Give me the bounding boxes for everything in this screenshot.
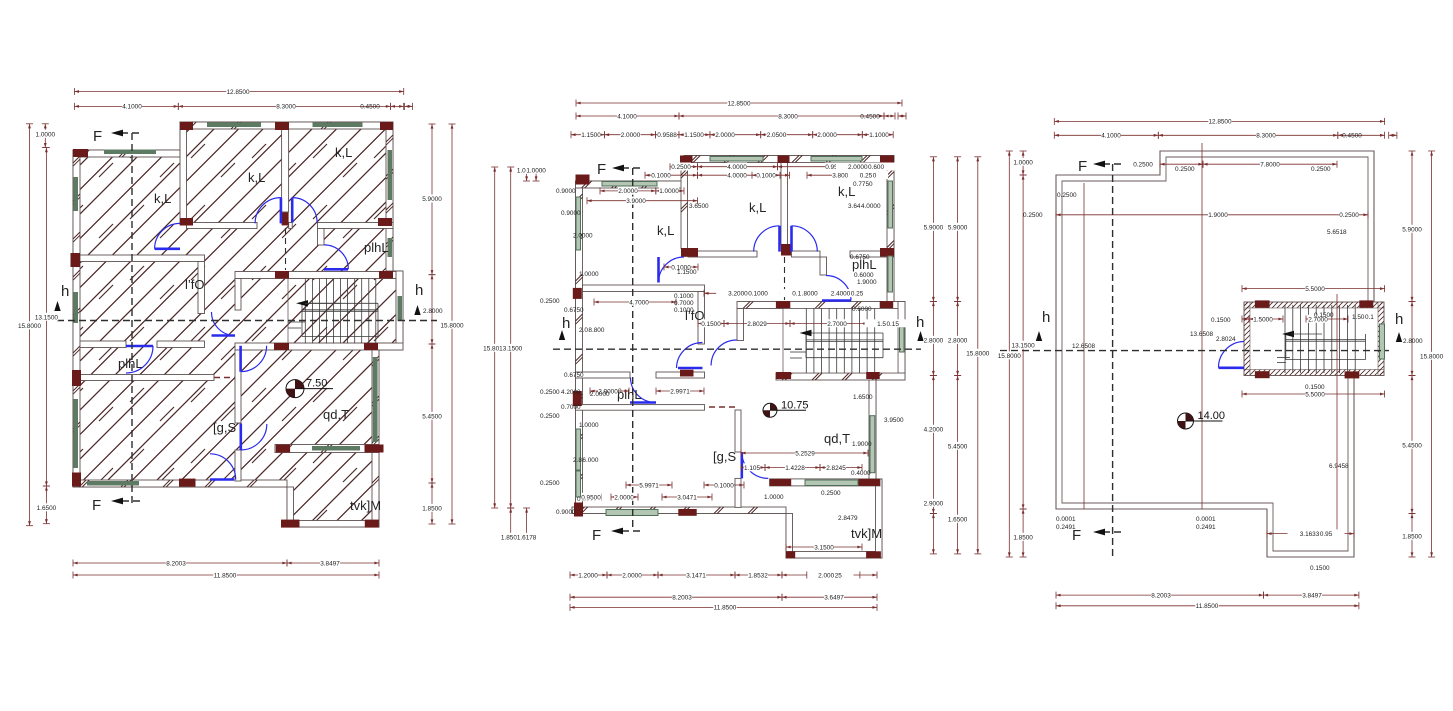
- plan2 windows: [576, 157, 904, 516]
- plan2 terrace step wall: [786, 514, 793, 559]
- svg-text:0.1000: 0.1000: [714, 482, 734, 489]
- svg-text:2.9000: 2.9000: [924, 500, 944, 507]
- svg-text:0.9000: 0.9000: [561, 210, 581, 217]
- plan2 bottom wall: [572, 507, 786, 514]
- plan1 wall B (k,L mid divider): [282, 129, 289, 212]
- plan2 stair dims: [698, 319, 724, 328]
- svg-text:0.7000: 0.7000: [561, 404, 581, 411]
- plan3 stair columns: [1255, 300, 1373, 378]
- svg-text:5.9000: 5.9000: [1402, 226, 1422, 233]
- svg-text:1.1500: 1.1500: [684, 132, 704, 139]
- svg-text:1.8500: 1.8500: [1402, 533, 1422, 540]
- plan1 bottom dimensions: [73, 559, 287, 568]
- plan2 bottom dim row C: [570, 603, 877, 612]
- plan3 long dim 1.9000: [1056, 211, 1368, 220]
- plan1 door D1: [155, 223, 180, 248]
- plan3 top dims: [1054, 117, 1384, 126]
- svg-text:3.8497: 3.8497: [320, 560, 340, 567]
- plan2 level marker 10.75: [763, 399, 809, 417]
- plan2 door D4-2: [677, 343, 703, 369]
- plan2 terrace right wall: [876, 479, 883, 558]
- plan2 stair top wall: [737, 302, 905, 309]
- svg-text:F: F: [597, 161, 606, 178]
- plan2 right dims: [923, 157, 943, 302]
- svg-text:2.7000: 2.7000: [827, 321, 847, 328]
- plan2 wall A2: [681, 163, 688, 249]
- svg-text:3.2000 0.1000: 3.2000 0.1000: [728, 291, 768, 298]
- plan1 wall I (plhL lower top): [80, 341, 126, 348]
- svg-text:2.8479: 2.8479: [838, 515, 858, 522]
- plan2 door vestibule: [711, 340, 737, 366]
- svg-text:1.8532: 1.8532: [748, 572, 768, 579]
- svg-text:5.5000: 5.5000: [1305, 286, 1325, 293]
- svg-text:2.8 6.000: 2.8 6.000: [573, 457, 599, 464]
- svg-text:15.8000: 15.8000: [1420, 353, 1444, 360]
- plan2 wall left: [576, 188, 583, 514]
- svg-text:0.9500: 0.9500: [581, 494, 601, 501]
- plan1 wall E (l'fO top): [80, 255, 205, 262]
- svg-text:2.4000 0.25: 2.4000 0.25: [831, 291, 864, 298]
- plan1 wall top-left: [73, 150, 180, 157]
- svg-text:3.64 4.0000: 3.64 4.0000: [848, 203, 881, 210]
- plan1 left dimension 1.6500: [36, 486, 56, 524]
- plan2 staircase: [783, 309, 898, 374]
- plan1 double door D2 right: [292, 198, 317, 223]
- svg-text:3.1500: 3.1500: [814, 544, 834, 551]
- plan1 wall A (k,L left divider): [180, 129, 187, 225]
- plan2 section line h: [553, 314, 924, 349]
- plan1 wall K ([g,S right): [235, 350, 241, 423]
- svg-text:[g,S: [g,S: [713, 449, 736, 464]
- svg-text:1.2000: 1.2000: [578, 572, 598, 579]
- plan2 door D7-2: [742, 452, 769, 478]
- svg-text:0.2491: 0.2491: [1056, 524, 1076, 531]
- svg-text:F: F: [1078, 158, 1087, 175]
- plan2 double door right: [792, 226, 818, 252]
- svg-text:0.2500: 0.2500: [540, 413, 560, 420]
- plan1 left dimension 13.1500: [35, 148, 59, 486]
- svg-text:0.25 0: 0.25 0: [860, 173, 877, 180]
- svg-text:h: h: [1395, 311, 1403, 328]
- plan1 columns: [71, 122, 394, 528]
- plan1 top dimension 12.8500: [74, 87, 403, 96]
- svg-text:8.3000: 8.3000: [778, 113, 798, 120]
- plan1 door D6 (stair to qd,T): [241, 346, 267, 372]
- svg-text:1.6500: 1.6500: [37, 505, 57, 512]
- plan1 terrace bottom wall: [287, 521, 379, 528]
- svg-text:0.7750: 0.7750: [853, 181, 873, 188]
- svg-text:0.2500: 0.2500: [540, 480, 560, 487]
- plan 3 roof outline inner: [1062, 157, 1368, 551]
- plan3 stair window: [1380, 324, 1385, 359]
- svg-text:2.8029: 2.8029: [747, 321, 767, 328]
- svg-text:2.8000: 2.8000: [948, 337, 968, 344]
- plan3 bottom dims: [1056, 591, 1264, 600]
- plan3 section line h: [1000, 309, 1403, 351]
- svg-text:[g,S: [g,S: [213, 420, 236, 435]
- plan2 wall F2 (corridor right): [698, 292, 705, 345]
- svg-text:2.0000: 2.0000: [622, 572, 642, 579]
- svg-text:0.2500: 0.2500: [1339, 212, 1359, 219]
- plan2 dims bottom area: [626, 481, 672, 490]
- plan1 stair block bottom wall: [235, 343, 403, 350]
- svg-text:3.8497: 3.8497: [1302, 592, 1322, 599]
- plan1 section line F vertical: [92, 128, 140, 514]
- svg-text:15.8000: 15.8000: [966, 350, 990, 357]
- svg-text:2.0000: 2.0000: [614, 494, 634, 501]
- plan3 section line F: [1072, 158, 1121, 560]
- plan2 section line F: [592, 161, 641, 544]
- svg-text:h: h: [562, 315, 570, 332]
- svg-text:0.2500: 0.2500: [1023, 212, 1043, 219]
- svg-text:F: F: [92, 497, 101, 514]
- plan1 door D5 (plhL lower): [126, 346, 153, 373]
- plan 1 (ground floor) hatched footprint: [73, 122, 403, 527]
- plan1 terrace step wall: [287, 487, 294, 527]
- svg-text:15.8000: 15.8000: [18, 323, 42, 330]
- plan1 level arrow right: [414, 305, 420, 315]
- svg-text:0.0001: 0.0001: [1196, 516, 1216, 523]
- plan2 wall I2: [576, 372, 631, 378]
- svg-text:0.1000: 0.1000: [674, 307, 694, 314]
- svg-text:0.2500: 0.2500: [1133, 162, 1153, 169]
- svg-text:0.4500: 0.4500: [1342, 133, 1362, 140]
- plan1 wall J (plhL lower bottom): [73, 375, 214, 381]
- svg-text:1.50 0.1: 1.50 0.1: [1352, 314, 1374, 321]
- svg-text:tvk]M: tvk]M: [350, 498, 381, 513]
- svg-text:l’fO: l’fO: [185, 277, 205, 292]
- svg-text:1.0000: 1.0000: [579, 271, 599, 278]
- svg-text:1.6178: 1.6178: [517, 534, 537, 541]
- plan3 left dims: [998, 151, 1022, 557]
- plan1 door D7 ([g,S): [241, 424, 267, 451]
- plan2 dims around plhL lower: [590, 387, 629, 396]
- plan2 double door left: [754, 226, 780, 252]
- svg-text:5.9971: 5.9971: [639, 482, 659, 489]
- svg-text:0.9000: 0.9000: [556, 509, 576, 516]
- plan1 double door D2 left: [255, 198, 281, 224]
- svg-text:15.8000: 15.8000: [440, 322, 464, 329]
- svg-text:2.0000: 2.0000: [621, 132, 641, 139]
- svg-text:0.6750: 0.6750: [564, 307, 584, 314]
- svg-text:2.0000: 2.0000: [618, 188, 638, 195]
- svg-text:11.8500: 11.8500: [214, 572, 237, 579]
- svg-text:2.8000: 2.8000: [423, 308, 443, 315]
- plan1 wall left: [73, 150, 80, 487]
- plan 2 (first floor) outline: [576, 156, 906, 559]
- svg-text:0.1500: 0.1500: [1211, 317, 1231, 324]
- svg-text:5.9000: 5.9000: [924, 224, 944, 231]
- svg-text:3.6500: 3.6500: [689, 203, 709, 210]
- svg-text:8.3000: 8.3000: [1256, 133, 1276, 140]
- svg-text:h: h: [916, 314, 924, 331]
- svg-text:1.0000: 1.0000: [1013, 159, 1033, 166]
- svg-text:12.8500: 12.8500: [727, 100, 751, 107]
- svg-text:h: h: [61, 283, 69, 300]
- svg-text:13.6508: 13.6508: [1190, 331, 1214, 338]
- plan1 wall F (corridor right): [198, 262, 205, 314]
- plan2 door plhL: [822, 276, 851, 301]
- svg-text:0.1 .8000: 0.1 .8000: [792, 291, 818, 298]
- svg-text:0.2500: 0.2500: [1057, 192, 1077, 199]
- svg-text:0.2500: 0.2500: [671, 164, 691, 171]
- plan2 wall top-left: [576, 181, 685, 188]
- plan2 columns: [573, 156, 894, 559]
- svg-text:12.8500: 12.8500: [1208, 119, 1232, 126]
- plan1 wall right upper: [386, 129, 393, 271]
- svg-text:0.1500: 0.1500: [701, 321, 721, 328]
- plan1 top dimension row2: [74, 102, 178, 111]
- svg-text:0.2500: 0.2500: [821, 490, 841, 497]
- plan2 level arrows: [559, 330, 565, 340]
- svg-text:8.3000: 8.3000: [276, 104, 296, 111]
- svg-text:3.6497: 3.6497: [824, 595, 844, 602]
- svg-text:1.4228: 1.4228: [785, 465, 805, 472]
- svg-text:1.105: 1.105: [744, 465, 760, 472]
- svg-text:3.0471: 3.0471: [677, 494, 697, 501]
- svg-text:0.1500: 0.1500: [1314, 312, 1334, 319]
- svg-text:1.0000: 1.0000: [36, 131, 56, 138]
- svg-text:3.9500: 3.9500: [884, 417, 904, 424]
- plan2 interior dims top: [698, 163, 778, 172]
- svg-text:1.0000: 1.0000: [526, 167, 546, 174]
- plan3 stair block: [1244, 294, 1384, 376]
- plan1 right dimension line inner: [422, 124, 442, 275]
- svg-text:5.9000: 5.9000: [422, 196, 442, 203]
- svg-text:F: F: [592, 527, 601, 544]
- svg-text:plhL: plhL: [852, 257, 877, 272]
- svg-text:0.2500: 0.2500: [1175, 166, 1195, 173]
- plan2 wall B2: [781, 163, 788, 245]
- svg-text:3.9000: 3.9000: [626, 198, 646, 205]
- plan2 hidden line below column B2: [784, 257, 786, 300]
- svg-text:k,L: k,L: [154, 191, 171, 206]
- plan1 right dimension line outer 15.8000: [440, 124, 464, 524]
- plan 3 roof outline outer: [1056, 151, 1374, 557]
- plan1 stair block right wall: [396, 271, 403, 350]
- svg-text:2.000 25: 2.000 25: [818, 572, 842, 579]
- svg-text:h: h: [415, 282, 423, 299]
- plan1 door D8 (bottom exit): [210, 454, 236, 480]
- plan2 dim row2: [576, 112, 679, 121]
- svg-text:1.0000: 1.0000: [659, 188, 679, 195]
- svg-text:qd,T: qd,T: [824, 431, 850, 446]
- svg-text:2.0000: 2.0000: [573, 233, 593, 240]
- plan2 interior dims middle: [704, 289, 790, 298]
- svg-text:0.4000: 0.4000: [851, 470, 871, 477]
- plan1 wall right lower (qd,T): [372, 350, 379, 527]
- svg-text:11.8500: 11.8500: [714, 605, 737, 612]
- plan2 wall D2 (plhL left): [820, 257, 827, 275]
- svg-text:2.0000 0.600: 2.0000 0.600: [848, 164, 885, 171]
- svg-text:5.4500: 5.4500: [948, 443, 968, 450]
- svg-text:1.9000: 1.9000: [857, 279, 877, 286]
- svg-text:4.1000: 4.1000: [617, 113, 637, 120]
- svg-text:5.5000: 5.5000: [1305, 391, 1325, 398]
- svg-text:10.75: 10.75: [781, 399, 809, 411]
- svg-text:1.8500: 1.8500: [1013, 534, 1033, 541]
- svg-text:0.2500: 0.2500: [540, 389, 560, 396]
- plan1 level marker 7.50: [286, 378, 333, 398]
- svg-text:0.1000: 0.1000: [756, 173, 776, 180]
- plan1 wall J dashed continuation: [214, 377, 236, 379]
- plan2 dims qd,T: [741, 449, 868, 458]
- svg-text:1.9000: 1.9000: [852, 441, 872, 448]
- svg-text:2.9971: 2.9971: [670, 388, 690, 395]
- svg-text:plhL: plhL: [364, 240, 389, 255]
- plan1 wall D (plhL left): [318, 229, 325, 246]
- plan2 wall J2: [576, 405, 705, 411]
- svg-text:k,L: k,L: [657, 223, 674, 238]
- svg-text:0.4500: 0.4500: [860, 113, 880, 120]
- svg-text:5.2529: 5.2529: [795, 450, 815, 457]
- plan1 section line h horizontal: [57, 282, 437, 321]
- plan2 wall C2 (hall top): [688, 251, 757, 257]
- svg-text:4.0000: 4.0000: [727, 164, 747, 171]
- svg-text:13.1500: 13.1500: [1012, 342, 1036, 349]
- svg-text:0.0001: 0.0001: [1056, 516, 1076, 523]
- svg-text:0.6000: 0.6000: [852, 306, 872, 313]
- svg-text:0.6000: 0.6000: [854, 272, 874, 279]
- plan2 wall K2: [735, 410, 741, 452]
- svg-text:0.1000: 0.1000: [651, 173, 671, 180]
- plan1 door D4 (stair hall): [212, 312, 236, 336]
- svg-text:0.7000: 0.7000: [674, 300, 694, 307]
- plan3 stair dims: [1242, 284, 1385, 293]
- svg-text:1.1500: 1.1500: [677, 269, 697, 276]
- plan1 staircase: [288, 279, 396, 344]
- svg-text:13.1500: 13.1500: [499, 345, 523, 352]
- plan1 wall H (hall left): [235, 279, 241, 311]
- svg-text:8.2003: 8.2003: [166, 560, 186, 567]
- svg-text:8.2003: 8.2003: [1151, 592, 1171, 599]
- plan2 wall top: [684, 156, 894, 163]
- plan3 right dims: [1402, 151, 1422, 302]
- svg-text:k,L: k,L: [749, 200, 766, 215]
- svg-text:15.8000: 15.8000: [998, 353, 1022, 360]
- svg-text:1.1000: 1.1000: [869, 132, 889, 139]
- svg-text:1.1500: 1.1500: [581, 132, 601, 139]
- svg-text:4.2000: 4.2000: [924, 426, 944, 433]
- svg-text:2.0 8.800: 2.0 8.800: [579, 327, 605, 334]
- plan3 interior line x1084: [1083, 183, 1085, 509]
- svg-text:2.8024: 2.8024: [1216, 336, 1236, 343]
- plan1 level arrow left: [54, 301, 60, 311]
- svg-text:k,L: k,L: [335, 145, 352, 160]
- svg-text:plhL: plhL: [118, 356, 143, 371]
- svg-text:5.9000: 5.9000: [948, 224, 968, 231]
- svg-text:0.9000: 0.9000: [556, 188, 576, 195]
- svg-text:4.1000: 4.1000: [122, 104, 142, 111]
- plan2 dim 12.8500: [576, 99, 902, 108]
- plan2 stair right wall: [898, 302, 905, 381]
- plan1 wall top: [180, 122, 393, 129]
- plan1 wall C (hall top): [187, 223, 258, 229]
- svg-text:6.9458: 6.9458: [1329, 463, 1349, 470]
- plan2 left outer dims: [483, 167, 507, 508]
- svg-text:14.00: 14.00: [1198, 410, 1226, 422]
- plan2 door E2: [659, 257, 685, 283]
- svg-text:2.0500: 2.0500: [767, 132, 787, 139]
- plan1 left dimension 1.0000: [35, 124, 55, 148]
- svg-text:0.1500: 0.1500: [1305, 384, 1325, 391]
- plan1 left outer dimension 15.8000: [18, 124, 42, 526]
- svg-text:0.9588: 0.9588: [657, 132, 677, 139]
- plan3 level marker 14.00: [1178, 410, 1226, 429]
- svg-text:0.1500: 0.1500: [1310, 565, 1330, 572]
- svg-text:0.4500: 0.4500: [360, 104, 380, 111]
- svg-text:5.4500: 5.4500: [422, 413, 442, 420]
- svg-text:2.0000: 2.0000: [715, 132, 735, 139]
- plan2 bottom dim row B: [570, 593, 782, 602]
- svg-text:4.2000: 4.2000: [561, 389, 581, 396]
- svg-text:4.1000: 4.1000: [1101, 133, 1121, 140]
- svg-text:1.8500: 1.8500: [422, 505, 442, 512]
- plan2 door D5-2: [630, 378, 656, 403]
- svg-text:2.0000: 2.0000: [817, 132, 837, 139]
- svg-text:F: F: [93, 128, 102, 145]
- svg-text:2.8245: 2.8245: [826, 465, 846, 472]
- svg-text:0.2500: 0.2500: [540, 298, 560, 305]
- svg-text:7.50: 7.50: [306, 378, 327, 390]
- svg-text:5.4500: 5.4500: [1402, 442, 1422, 449]
- plan1 stair block top wall: [235, 272, 403, 279]
- plan2 stair bottom wall: [776, 373, 905, 380]
- svg-text:4.7000: 4.7000: [629, 299, 649, 306]
- plan1 windows: [74, 123, 403, 486]
- plan2 dim row3: [571, 131, 605, 140]
- svg-text:1.6500: 1.6500: [948, 516, 968, 523]
- svg-text:12.6508: 12.6508: [1072, 343, 1096, 350]
- plan1 door D3 (plhL): [324, 245, 348, 269]
- svg-text:5.6518: 5.6518: [1327, 229, 1347, 236]
- svg-text:8.2003: 8.2003: [672, 595, 692, 602]
- svg-text:1.0000: 1.0000: [764, 494, 784, 501]
- svg-text:1.6500: 1.6500: [853, 394, 873, 401]
- svg-text:1.5 0.15: 1.5 0.15: [877, 321, 899, 328]
- svg-text:0.1000: 0.1000: [674, 293, 694, 300]
- svg-text:1.5000: 1.5000: [1253, 316, 1273, 323]
- plan2 terrace bottom wall: [786, 552, 882, 559]
- svg-text:3.1471: 3.1471: [686, 572, 706, 579]
- svg-text:0.2500: 0.2500: [1311, 166, 1331, 173]
- svg-text:0.2491: 0.2491: [1196, 524, 1216, 531]
- svg-text:qd,T: qd,T: [323, 407, 349, 422]
- svg-text:12.8500: 12.8500: [226, 89, 250, 96]
- svg-text:2.0000: 2.0000: [590, 391, 610, 398]
- plan1 hidden line below column B: [285, 228, 287, 270]
- plan3 interior line x1202: [1201, 143, 1203, 509]
- svg-text:1.9000: 1.9000: [1208, 212, 1228, 219]
- svg-text:11.8500: 11.8500: [1196, 603, 1219, 610]
- svg-text:7.8000: 7.8000: [1260, 162, 1280, 169]
- plan2 vestibule wall: [737, 309, 744, 341]
- plan2 bottom dim row A: [570, 571, 607, 580]
- plan3 upper dims: [1133, 160, 1203, 169]
- plan2 wall E2 (l'fO top): [583, 285, 705, 292]
- svg-text:2.8000: 2.8000: [924, 337, 944, 344]
- svg-text:tvk]M: tvk]M: [851, 526, 882, 541]
- svg-text:2.8000: 2.8000: [1403, 338, 1423, 345]
- svg-text:4.0000: 4.0000: [727, 173, 747, 180]
- plan2 wall right upper: [887, 163, 894, 302]
- svg-text:h: h: [1042, 309, 1050, 326]
- plan3 stair door: [1218, 342, 1244, 368]
- svg-text:3.1633 0.95: 3.1633 0.95: [1300, 531, 1333, 538]
- svg-text:1.0000: 1.0000: [579, 422, 599, 429]
- svg-text:13.1500: 13.1500: [35, 314, 59, 321]
- plan1 bottom wall: [73, 480, 287, 487]
